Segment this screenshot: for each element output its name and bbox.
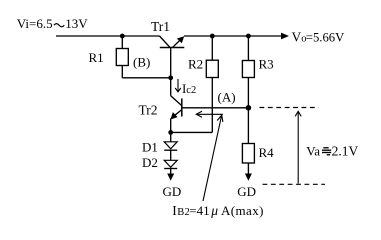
svg-text:13V: 13V — [65, 16, 88, 31]
resistor R3 — [242, 36, 254, 108]
label D1 — [142, 140, 158, 155]
annotation current Ic2 — [175, 79, 196, 96]
svg-text:Tr1: Tr1 — [151, 19, 170, 34]
resistor R1 — [116, 36, 128, 78]
svg-text:=5.66V: =5.66V — [306, 31, 345, 45]
annotation arrow base current direction — [196, 111, 223, 117]
node junction R1/top rail — [120, 34, 125, 39]
wire output top rail — [184, 35, 284, 37]
label R2 — [188, 57, 203, 72]
label Vo value — [292, 30, 346, 45]
svg-text:=41: =41 — [189, 203, 209, 218]
wire R2 bottom to emitter node — [171, 131, 213, 133]
wire Tr1 base down to Tr2 collector — [170, 48, 172, 96]
node junction emitter/diodes — [168, 130, 173, 135]
wire Tr2 base to node A — [182, 107, 249, 109]
transistor Tr1 — [160, 36, 185, 48]
svg-text:(A): (A) — [218, 90, 236, 105]
arrow Va measurement — [295, 111, 301, 183]
svg-text:A(max): A(max) — [221, 203, 264, 218]
label Tr2 — [139, 102, 158, 117]
label Tr1 — [151, 19, 170, 34]
label R4 — [259, 145, 275, 160]
svg-text:c2: c2 — [186, 85, 196, 96]
annotation leader line IB2 — [203, 115, 223, 201]
label R1 — [89, 50, 104, 65]
label (A) — [218, 90, 236, 105]
dashed ground level line — [263, 183, 326, 185]
svg-text:2.1V: 2.1V — [332, 144, 359, 159]
node A junction — [246, 105, 252, 111]
ground GD right — [237, 174, 256, 200]
wire R1 bottom to Tr1 base column — [122, 77, 170, 79]
label IB2 value — [172, 203, 264, 218]
svg-text:GD: GD — [163, 184, 182, 199]
diode D1 — [164, 132, 177, 150]
ground GD left — [163, 169, 182, 200]
node junction base column — [168, 75, 173, 80]
svg-text:R4: R4 — [259, 145, 275, 160]
svg-text:R2: R2 — [188, 57, 203, 72]
svg-text:(B): (B) — [133, 55, 150, 70]
label Va value — [306, 144, 358, 159]
svg-text:D2: D2 — [142, 155, 158, 170]
svg-text:GD: GD — [237, 184, 256, 199]
node junction R3/top rail — [246, 34, 251, 39]
svg-text:Va: Va — [306, 144, 320, 159]
label D2 — [142, 155, 158, 170]
diode D2 — [164, 150, 177, 168]
dashed node A level line — [260, 107, 319, 109]
svg-text:Tr2: Tr2 — [139, 102, 158, 117]
resistor R2 — [206, 36, 218, 132]
svg-text:B2: B2 — [177, 207, 190, 218]
transistor Tr2 — [170, 96, 182, 133]
svg-text:R3: R3 — [259, 57, 274, 72]
label (B) — [133, 55, 150, 70]
resistor R4 — [242, 108, 254, 176]
arrow output Vo — [281, 33, 289, 40]
svg-text:R1: R1 — [89, 50, 104, 65]
label R3 — [259, 57, 274, 72]
svg-text:Vi=6.5: Vi=6.5 — [17, 16, 53, 31]
svg-text:D1: D1 — [142, 140, 158, 155]
node junction R2/top rail — [210, 34, 215, 39]
label Vi value — [17, 16, 88, 31]
svg-text:V: V — [292, 30, 302, 45]
svg-text:μ: μ — [210, 203, 218, 218]
wire input top rail — [56, 35, 160, 37]
